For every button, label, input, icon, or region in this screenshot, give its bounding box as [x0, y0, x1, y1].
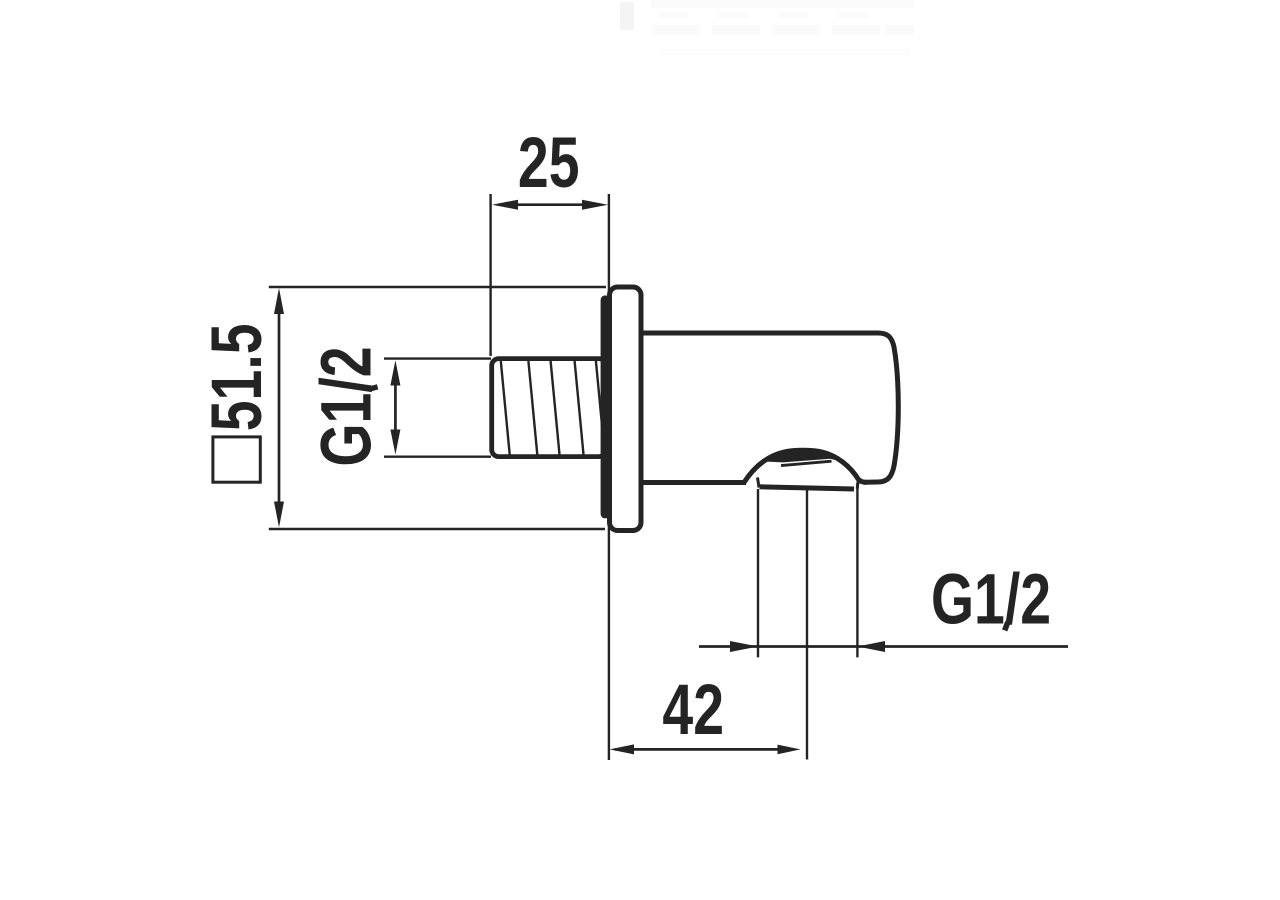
ext line 51.5 top	[269, 286, 606, 288]
outlet collar dome	[744, 450, 867, 482]
svg-text:G1/2: G1/2	[307, 346, 386, 466]
ext line G1/2 left bottom	[384, 456, 491, 458]
square symbol of 51.5	[213, 437, 260, 482]
collar inner thin line	[781, 461, 832, 465]
ext line G1/2 left top	[384, 357, 491, 359]
dimension 25	[492, 123, 608, 209]
dimension 42	[610, 670, 801, 754]
ext line 25 right / 42 left (long vertical)	[608, 194, 610, 760]
dimension G1/2 right (outlet)	[699, 560, 1068, 652]
dimension G1/2 left	[307, 346, 400, 466]
svg-text:42: 42	[662, 670, 724, 749]
wall plate outline	[610, 287, 642, 531]
svg-text:51.5: 51.5	[197, 323, 276, 431]
threaded wall nipple G1/2 (hatched block)	[492, 359, 606, 457]
thread hatch lines	[501, 361, 605, 455]
thin lines	[269, 194, 858, 760]
ext line outlet left	[757, 489, 759, 657]
ext line 25 left	[489, 194, 491, 356]
watermark band (faint)	[620, 0, 914, 55]
collar side joins	[758, 478, 859, 489]
collar bottom face	[760, 487, 855, 489]
svg-text:G1/2: G1/2	[931, 560, 1051, 639]
collar apex thick band	[764, 452, 846, 462]
wall plate thick front edge bar	[601, 295, 610, 518]
elbow body	[641, 333, 898, 483]
ext line 51.5 bottom	[269, 528, 605, 530]
outlet centerline	[806, 490, 808, 760]
ext line outlet right	[856, 483, 858, 657]
svg-text:25: 25	[518, 123, 580, 202]
dimension 51.5	[197, 288, 284, 528]
